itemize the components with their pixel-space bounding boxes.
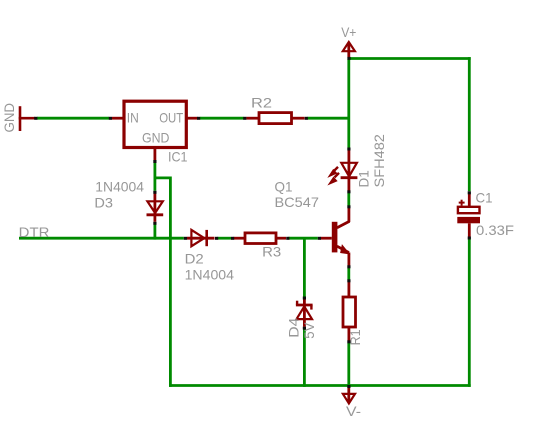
junction IC1 IN [109, 117, 112, 120]
wire: R1 to bottom rail [347, 343, 350, 386]
wire: base node down to D4 [303, 238, 306, 296]
pin IC1 GND stub [153, 148, 156, 161]
svg-text:1N4004: 1N4004 [95, 179, 144, 195]
svg-text:BC547: BC547 [275, 194, 320, 210]
junction R1 top [347, 279, 350, 282]
pin IC1 OUT stub [186, 117, 197, 120]
junction Q1 collector [347, 205, 350, 208]
resistor R1 [343, 297, 356, 327]
power V+ symbol [343, 42, 355, 58]
resistor R2 [259, 113, 292, 124]
svg-text:R2: R2 [251, 95, 272, 111]
junction D3 top [153, 191, 156, 194]
junction D1 bottom [347, 190, 350, 193]
junction dots (pin connection points) [34, 57, 471, 388]
wire: C1 to bottom rail [468, 239, 471, 387]
wire: D1 cathode to Q1 collector [347, 193, 350, 206]
LED D1 [341, 151, 358, 191]
wire: Q1 emitter to R1 [347, 268, 350, 280]
junction D1 top [347, 148, 350, 151]
junction IC1 OUT [197, 117, 200, 120]
svg-text:D4: D4 [286, 317, 302, 337]
junction D4 top [303, 297, 306, 300]
svg-text:Q1: Q1 [275, 179, 293, 195]
wire: R3 to Q1 base [289, 237, 318, 240]
svg-text:R3: R3 [262, 244, 281, 260]
junction D2 cathode [215, 237, 218, 240]
svg-text:0.33F: 0.33F [476, 222, 514, 238]
wire: GND net from pin to IC1 IN [37, 117, 109, 120]
junction D4 bottom [303, 327, 306, 330]
op-amp IC1 regulator box [124, 101, 186, 147]
power V- symbol [343, 387, 355, 404]
junction D2 anode [184, 237, 187, 240]
svg-text:DTR: DTR [19, 224, 50, 240]
svg-text:V+: V+ [341, 24, 356, 40]
svg-text:IC1: IC1 [168, 149, 188, 165]
junction Q1 base [318, 237, 321, 240]
transistor Q1 [321, 208, 350, 266]
diode D2 [187, 230, 215, 246]
wire: jog down to D3 anode [153, 178, 156, 191]
wire: V+ vertical to D1 [347, 59, 350, 148]
junction D3 bottom [153, 222, 156, 225]
pin GND symbol left [19, 106, 35, 131]
svg-text:C1: C1 [476, 190, 493, 206]
svg-text:5V: 5V [301, 322, 317, 339]
wire: IC1 GND pin down to jog [153, 163, 156, 180]
svg-text:SFH482: SFH482 [371, 134, 387, 188]
wire: top rail V+ to right side [349, 57, 471, 60]
junction C1 top [468, 191, 471, 194]
LED D1 emission arrows [329, 167, 339, 185]
svg-text:D3: D3 [94, 195, 113, 211]
junction IC1 GND pin [153, 160, 156, 163]
svg-text:D1: D1 [356, 170, 372, 187]
svg-text:GND: GND [142, 130, 170, 146]
junction R2 right [305, 117, 308, 120]
pin IC1 IN stub [112, 117, 124, 120]
junction R1 bottom [347, 340, 350, 343]
wire: D2 cathode to R3 [218, 237, 232, 240]
junction GND pin [34, 117, 37, 120]
svg-text:V-: V- [346, 403, 361, 419]
wire: bottom rail V- [169, 384, 471, 387]
junction V- pin [347, 385, 350, 388]
diode D3 [147, 193, 164, 221]
capacitor C1 [457, 194, 480, 237]
svg-text:1N4004: 1N4004 [185, 266, 235, 282]
svg-text:GND: GND [1, 103, 17, 133]
junction V+ pin [347, 57, 350, 60]
svg-text:D2: D2 [185, 251, 204, 267]
svg-text:OUT: OUT [159, 110, 183, 126]
wire: jog to left GND vertical [155, 178, 171, 387]
wire: D4 to bottom rail [303, 330, 306, 387]
svg-text:IN: IN [127, 110, 139, 126]
resistor R3 [245, 233, 276, 244]
junction R2 left [243, 117, 246, 120]
wire: D3 cathode to DTR wire [153, 225, 156, 240]
wire: R2 to V+ vertical [308, 117, 349, 120]
junction R3 right [286, 237, 289, 240]
wire: DTR horizontal to D2 anode [19, 237, 184, 240]
junction Q1 emitter [347, 265, 350, 268]
junction R3 left [231, 237, 234, 240]
wire: IC1 OUT to R2 [200, 117, 244, 120]
junction C1 bottom [468, 237, 471, 240]
zener diode D4 [296, 299, 313, 327]
wire: right vertical to C1 [468, 57, 471, 191]
